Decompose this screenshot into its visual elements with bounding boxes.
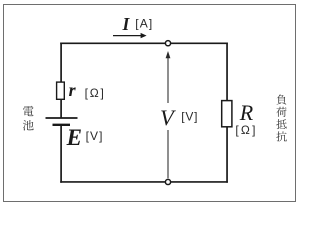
svg-text:r: r — [69, 80, 77, 100]
load label kanji 抗 — [276, 131, 286, 141]
battery E negative plate — [53, 124, 71, 126]
wire top side — [60, 42, 228, 44]
battery E positive plate — [46, 117, 78, 119]
svg-text:V: V — [160, 105, 176, 130]
load label kanji 抵 — [276, 119, 286, 129]
voltage V measurement line (lower segment) — [167, 130, 169, 178]
wire left side upper (battery to top) — [60, 43, 62, 119]
battery E (wire gap between plates) — [57, 119, 65, 124]
wire bottom side — [60, 181, 228, 183]
load label kanji 荷 — [276, 107, 286, 117]
resistor R (load) — [222, 101, 232, 127]
svg-text:[A]: [A] — [135, 17, 153, 31]
svg-text:[V]: [V] — [181, 109, 198, 123]
wire left side lower (battery to bottom) — [60, 125, 62, 183]
voltage V measurement arrow (upper segment with arrowhead) — [167, 57, 169, 104]
svg-text:[V]: [V] — [86, 129, 104, 143]
svg-text:R: R — [239, 100, 254, 125]
node top terminal — [165, 41, 170, 46]
load label kanji 負 — [277, 94, 287, 104]
node bottom terminal — [165, 179, 170, 184]
wire right side — [226, 43, 228, 183]
battery label kanji 電 — [23, 106, 34, 116]
battery label kanji 池 — [23, 120, 34, 131]
current direction arrow I — [113, 35, 142, 37]
svg-text:[Ω]: [Ω] — [235, 123, 257, 137]
svg-text:E: E — [66, 125, 82, 150]
svg-text:I: I — [122, 14, 131, 34]
resistor r (internal resistance) — [57, 82, 65, 99]
svg-text:[Ω]: [Ω] — [85, 86, 106, 100]
